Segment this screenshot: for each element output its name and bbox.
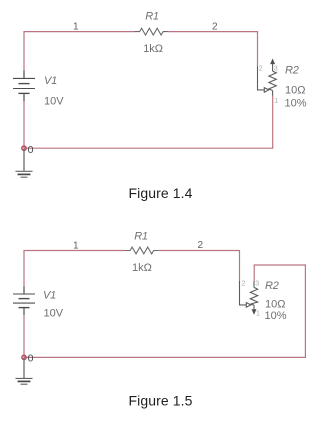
- node 0 junction: [22, 355, 26, 359]
- svg-text:10%: 10%: [285, 97, 307, 109]
- svg-text:V1: V1: [44, 75, 57, 87]
- node 0 junction: [22, 146, 26, 150]
- svg-text:3: 3: [274, 65, 278, 72]
- svg-text:R2: R2: [265, 280, 279, 292]
- svg-text:R1: R1: [145, 11, 159, 23]
- wire net2: R1 right lead to top-right corner down to R2 pin2 lead: [168, 32, 258, 67]
- potentiometer R2: [258, 59, 277, 95]
- wire net2: R1 right lead to corner down to R2 wiper: [159, 251, 240, 282]
- wire: battery negative to node 0: [23, 315, 25, 357]
- svg-text:10V: 10V: [44, 308, 64, 320]
- svg-text:Figure 1.5: Figure 1.5: [129, 392, 193, 408]
- svg-text:1: 1: [256, 311, 260, 318]
- svg-text:R2: R2: [285, 65, 299, 77]
- wire net1: top-left corner to R1 left lead: [24, 251, 125, 287]
- battery V1: [13, 71, 35, 102]
- ground: [16, 357, 33, 384]
- wiper open arrowhead: [246, 303, 251, 308]
- svg-text:10%: 10%: [265, 310, 287, 322]
- svg-text:V1: V1: [43, 290, 56, 302]
- zigzag body: [269, 71, 276, 90]
- wire: battery negative to node 0: [23, 101, 25, 148]
- battery V1: [13, 287, 35, 316]
- wire net0: bottom run, right side up to R2 pin3: [24, 265, 305, 357]
- svg-text:Figure 1.4: Figure 1.4: [129, 185, 193, 201]
- svg-text:1: 1: [73, 240, 79, 251]
- wire net0: bottom run from node 0 to R2 pin1: [24, 96, 273, 149]
- svg-text:R1: R1: [134, 231, 148, 243]
- wire net1: top-left corner to R1 left lead: [24, 32, 135, 71]
- svg-text:10V: 10V: [44, 96, 64, 108]
- svg-text:3: 3: [255, 281, 259, 288]
- zigzag body: [250, 287, 257, 305]
- pin 1 lead: [253, 305, 255, 310]
- svg-text:1kΩ: 1kΩ: [132, 262, 152, 274]
- wiper open arrowhead: [264, 88, 269, 93]
- potentiometer R2: [240, 281, 258, 314]
- pin 2 wiper lead: [240, 281, 247, 305]
- svg-text:1: 1: [73, 22, 79, 33]
- svg-text:10Ω: 10Ω: [265, 299, 285, 311]
- pin 1 lead: [272, 91, 274, 96]
- svg-text:0: 0: [28, 353, 34, 365]
- resistor R1: [135, 28, 169, 35]
- svg-text:2: 2: [259, 65, 263, 72]
- svg-text:2: 2: [212, 22, 218, 33]
- svg-text:2: 2: [198, 240, 204, 251]
- pin 3 lead: [253, 281, 255, 287]
- svg-text:1kΩ: 1kΩ: [143, 43, 163, 55]
- pin 1 arrowhead (unconnected, points down): [252, 310, 256, 315]
- svg-text:0: 0: [28, 144, 34, 156]
- ground: [16, 148, 33, 177]
- pin 2 wiper lead: [258, 67, 265, 90]
- resistor R1: [125, 247, 159, 254]
- svg-text:10Ω: 10Ω: [285, 85, 305, 97]
- pin 3 lead: [272, 64, 274, 72]
- svg-text:1: 1: [274, 98, 278, 105]
- svg-text:2: 2: [242, 281, 246, 288]
- pin 3 arrowhead (unconnected, points up): [271, 59, 275, 64]
